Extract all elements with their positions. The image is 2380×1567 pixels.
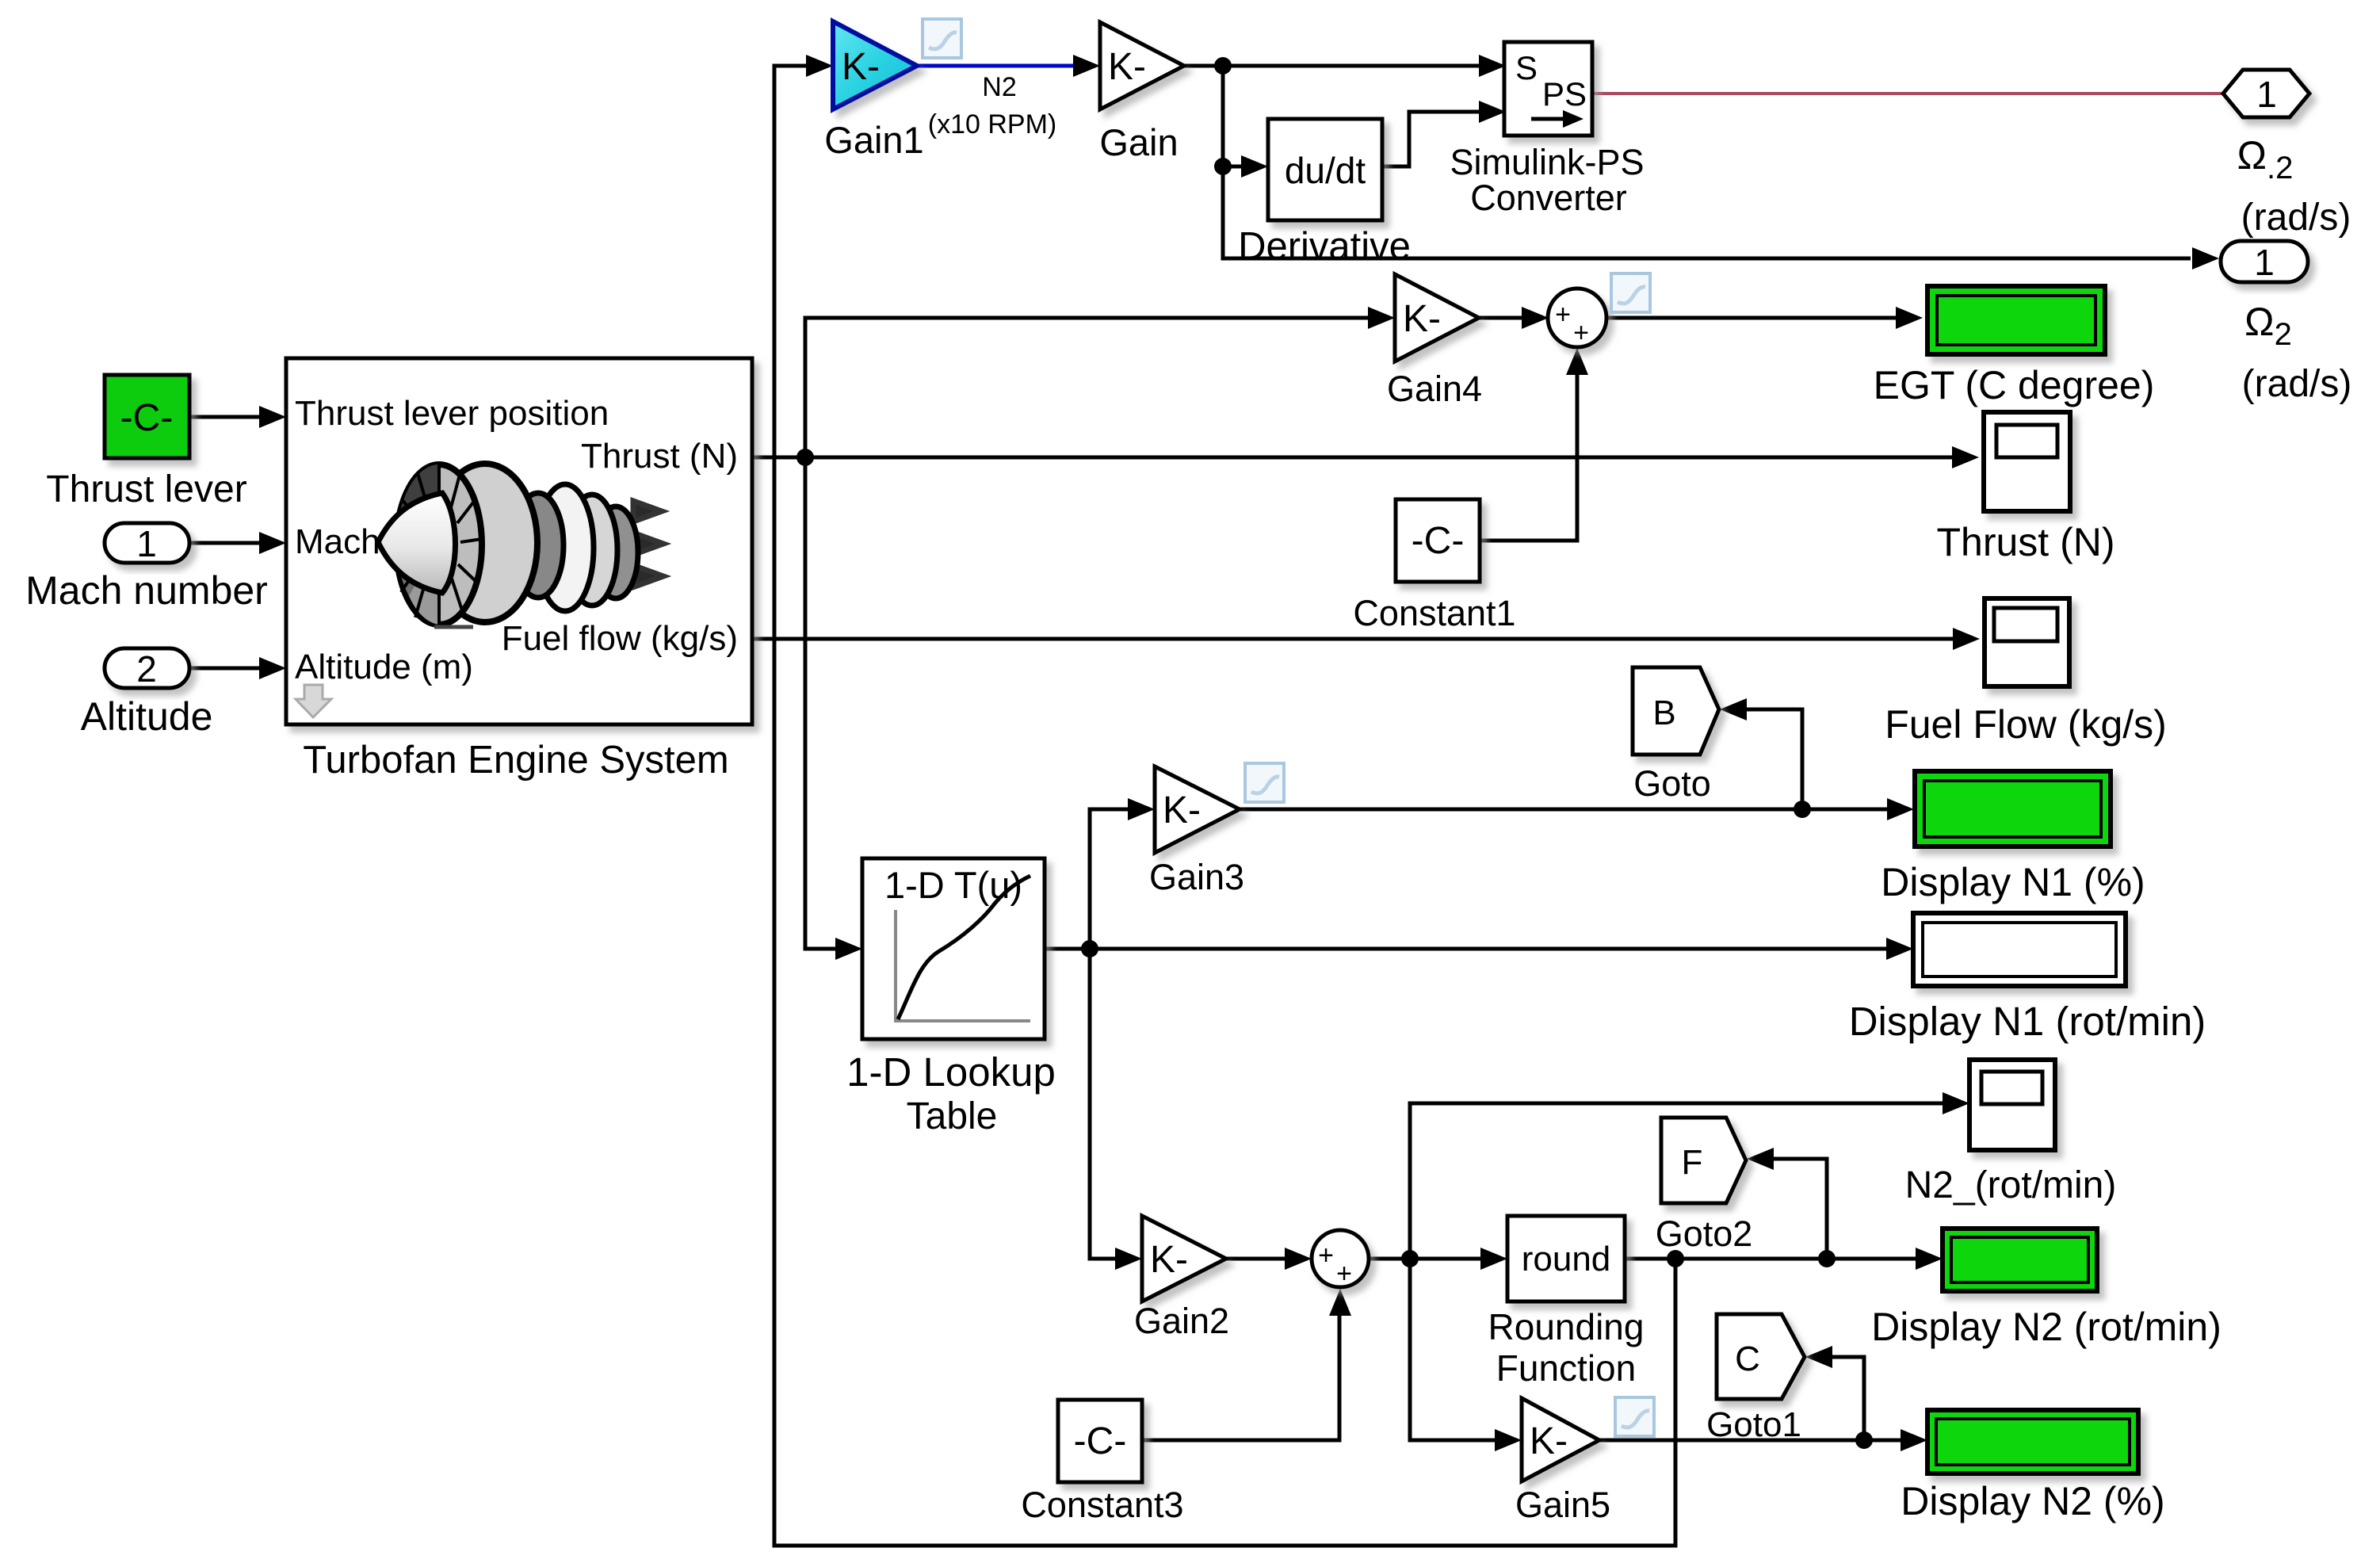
junction on Thrust line [797,449,814,466]
wire riser to goto2 F [1773,1159,1827,1259]
svg-text:Goto1: Goto1 [1706,1405,1801,1444]
svg-text:Goto2: Goto2 [1656,1213,1753,1254]
inport 2 Altitude [105,648,189,688]
svg-text:-C-: -C- [120,397,174,439]
svg-text:Derivative: Derivative [1238,225,1411,268]
arrowhead into Display N1 pct [1887,798,1914,820]
middle dark disk [513,493,563,598]
arrowhead into Display N2 rot/min [1916,1248,1943,1270]
fan dark sectors [396,464,439,545]
wire branch down to gain2 [1090,949,1136,1259]
outport 1 [2221,241,2308,282]
rear dark disk [594,506,638,598]
arrowhead into Simulink-PS S input [1479,55,1506,77]
wire lookup out to display n1 rotmin [1045,947,1907,951]
junction on Gain3 output to Goto B [1794,801,1811,818]
logging badge sum1 [1611,273,1650,312]
svg-text:1-D T(u): 1-D T(u) [884,864,1022,906]
svg-text:Gain1: Gain1 [824,119,923,161]
gain Gain5 [1522,1398,1599,1481]
svg-text:Display N1 (rot/min): Display N1 (rot/min) [1849,999,2206,1044]
wire round out to display n2 rotmin [1625,1257,1936,1261]
subsystem Turbofan Engine System [286,358,752,724]
arrowhead into Goto B [1720,698,1747,720]
svg-text:Thrust lever: Thrust lever [46,468,246,510]
wire riser to goto1 C [1831,1357,1864,1440]
svg-text:2: 2 [136,648,157,690]
svg-text:K-: K- [1403,298,1441,340]
Simulink-PS Converter [1504,42,1592,136]
svg-text:N2_(rot/min): N2_(rot/min) [1905,1164,2117,1206]
svg-text:Altitude (m): Altitude (m) [295,648,473,686]
wire EGT branch up [805,318,1390,457]
svg-text:PS: PS [1542,75,1587,113]
gain Gain3 [1155,766,1240,853]
arrowhead into Goto2 F [1747,1148,1774,1170]
svg-text:Display N1 (%): Display N1 (%) [1881,860,2145,904]
svg-text:Display N2 (rot/min): Display N2 (rot/min) [1871,1305,2221,1349]
wire du/dt out to PS second input [1382,112,1499,166]
svg-text:Fuel Flow (kg/s): Fuel Flow (kg/s) [1885,702,2167,747]
svg-text:Goto: Goto [1633,763,1711,804]
PS hexagon port 1 [2223,70,2309,117]
svg-text:+: + [1336,1259,1352,1289]
svg-text:(rad/s): (rad/s) [2242,363,2352,405]
constant block Thrust lever [105,375,189,458]
scope Thrust [1984,412,2070,511]
wire fuel flow row [752,637,1967,641]
logging badge Gain5 [1615,1397,1654,1436]
wire riser to goto B [1747,709,1802,809]
sum2 [1312,1230,1369,1287]
display EGT [1927,286,2105,354]
wire PS red output to hexagon port [1592,92,2225,95]
svg-text:Function: Function [1496,1347,1636,1389]
arrowhead into Gain2 [1115,1248,1142,1270]
svg-text:+: + [1573,318,1589,348]
fan radial lines [396,464,482,625]
arrowhead into Mach port [259,532,286,554]
wire junction down to du/dt and derivative row [1223,66,2191,258]
wire gain4 to sum1 [1479,316,1542,320]
wire gain5 out to display n2 pct [1599,1439,1921,1443]
svg-text:F: F [1682,1143,1703,1182]
svg-text:Thrust (N): Thrust (N) [581,437,738,476]
svg-text:K-: K- [1163,789,1201,831]
wire branch down to gain5 [1410,1259,1515,1440]
light ring 2 [567,495,617,606]
arrowhead into Thrust lever position port [259,406,286,428]
svg-text:1: 1 [2254,242,2275,283]
svg-text:B: B [1652,694,1675,732]
arrowhead into sum1 bottom [1566,348,1588,375]
svg-text:Mach: Mach [295,522,380,561]
inport 1 Mach number [105,523,189,563]
svg-text:Rounding: Rounding [1488,1306,1645,1347]
junction on Gain5 output to Goto1 C [1855,1431,1873,1449]
svg-text:Simulink-PS: Simulink-PS [1450,142,1644,182]
fan disk [396,464,482,625]
svg-text:Display N2 (%): Display N2 (%) [1901,1479,2164,1523]
wire constant1 to sum1 [1480,354,1577,541]
arrowhead into Display N1 rot/min [1886,938,1913,960]
bottom shadow line [434,625,473,629]
svg-text:Constant3: Constant3 [1021,1485,1183,1525]
svg-text:Thrust lever position: Thrust lever position [295,394,609,433]
spinner cone [378,493,456,593]
svg-text:Gain2: Gain2 [1134,1301,1229,1341]
arrowhead into outport 1 [2192,247,2219,269]
arrowhead into sum2 [1285,1248,1312,1270]
svg-text:Table: Table [907,1095,998,1137]
engine icon [378,464,663,627]
svg-text:(rad/s): (rad/s) [2241,197,2351,239]
svg-text:Ω2: Ω2 [2244,300,2292,352]
arrowhead into Thrust scope [1952,446,1979,468]
arrowhead into Simulink-PS second input [1479,101,1506,123]
wire thrust row [752,456,1966,460]
svg-text:Gain5: Gain5 [1515,1485,1610,1525]
svg-text:1: 1 [2256,74,2277,115]
junction on round output to Goto2 F [1818,1250,1836,1267]
svg-text:Gain4: Gain4 [1387,369,1482,409]
svg-text:-C-: -C- [1412,520,1465,562]
svg-text:Gain3: Gain3 [1149,857,1244,897]
goto1 C [1717,1314,1805,1399]
wire thrust branch down to lookup table [805,457,856,949]
arrowhead into Altitude port [259,657,286,679]
scope Fuel Flow [1985,598,2069,686]
junction after 1-D Lookup Table [1081,940,1098,957]
lookup table [862,858,1045,1039]
svg-text:1-D Lookup: 1-D Lookup [846,1049,1056,1095]
arrowhead into Goto1 C [1805,1346,1832,1368]
svg-text:K-: K- [1108,46,1146,88]
arrowhead into sum2 bottom [1329,1289,1351,1316]
junction after Gain output [1214,57,1232,75]
arrowhead into Gain5 [1495,1429,1522,1451]
svg-text:C: C [1735,1340,1760,1378]
wire branch to N2 scope [1410,1103,1963,1259]
constant Constant1 [1396,499,1480,582]
svg-text:1: 1 [136,523,157,564]
gain Gain2 [1142,1216,1226,1301]
gain Gain1 (cyan) [833,21,917,109]
svg-text:du/dt: du/dt [1285,150,1366,191]
arrowhead into EGT display [1896,307,1923,329]
svg-text:N2: N2 [982,72,1016,102]
svg-text:+: + [1318,1240,1334,1271]
wire mach port to turbofan [189,541,280,545]
wire Gain out to PS converter [1184,64,1499,68]
goto B [1633,667,1719,755]
arrowhead into Gain4 [1368,307,1395,329]
cowl [433,464,537,622]
junction after sum2 output [1401,1250,1419,1267]
svg-text:Mach number: Mach number [25,568,268,613]
gray down arrow glyph [296,685,331,717]
display N1 pct [1915,771,2111,847]
svg-text:(x10 RPM): (x10 RPM) [928,109,1056,140]
derivative du/dt [1268,119,1382,220]
svg-text:S: S [1515,49,1538,86]
wire constant3 to sum2 [1142,1295,1339,1440]
sum1 [1548,289,1606,347]
svg-text:EGT (C degree): EGT (C degree) [1874,363,2155,407]
svg-text:Ω.2: Ω.2 [2237,133,2294,185]
wire sum2 out to round [1369,1257,1501,1261]
display N2 pct [1927,1410,2138,1473]
svg-text:-C-: -C- [1074,1420,1127,1462]
display N2 rotmin [1943,1229,2097,1291]
wire gain2 to sum2 [1226,1257,1305,1261]
white ring [537,484,594,611]
arrowhead into Fuel Flow scope [1953,628,1980,650]
gain Gain [1100,22,1184,109]
scope N2 rotmin [1969,1060,2055,1150]
svg-text:Thrust (N): Thrust (N) [1937,520,2115,564]
arrowhead into Gain1 [806,55,833,77]
logging badge Gain1 [923,19,961,58]
svg-text:Turbofan Engine System: Turbofan Engine System [303,739,728,782]
logging badge Gain3 [1245,763,1284,802]
svg-text:K-: K- [842,46,880,88]
wire sum1 to EGT display [1606,316,1910,320]
thrust arrows [582,501,663,587]
arrowhead into 1-D Lookup Table [835,938,862,960]
svg-text:+: + [1555,300,1571,330]
svg-text:Gain: Gain [1099,121,1178,163]
constant Constant3 [1058,1400,1142,1482]
svg-text:Converter: Converter [1470,178,1627,218]
svg-text:Fuel flow (kg/s): Fuel flow (kg/s) [502,619,738,658]
arrowhead into sum1 [1522,307,1549,329]
arrowhead into Gain3 [1128,798,1155,820]
goto2 F [1661,1118,1746,1203]
wire thrust lever to turbofan [189,415,280,419]
wire altitude port to turbofan [189,667,280,671]
arrowhead into round block [1480,1248,1507,1270]
arrowhead into N2_ scope [1943,1092,1969,1114]
junction after round to feedback [1667,1250,1684,1267]
round block [1507,1216,1625,1301]
arrowhead into Gain (blue) [1073,55,1100,77]
wire branch up to gain3 [1090,809,1148,949]
junction at du/dt input branch [1214,158,1232,175]
svg-text:Altitude: Altitude [81,694,213,739]
svg-text:K-: K- [1530,1420,1568,1462]
arrowhead into Derivative [1241,155,1268,178]
wire gain3 out to display n1 pct [1240,808,1908,812]
svg-text:K-: K- [1150,1239,1188,1281]
wire into du/dt [1223,165,1262,169]
wire N2 blue from Gain1 to Gain [917,64,1094,68]
wire feedback loop bottom [774,66,1675,1546]
svg-text:round: round [1522,1240,1611,1278]
svg-text:Constant1: Constant1 [1353,593,1515,633]
display N1 rotmin (white) [1913,913,2126,986]
gain Gain4 [1395,274,1479,361]
arrowhead into Display N2 pct [1901,1429,1927,1451]
